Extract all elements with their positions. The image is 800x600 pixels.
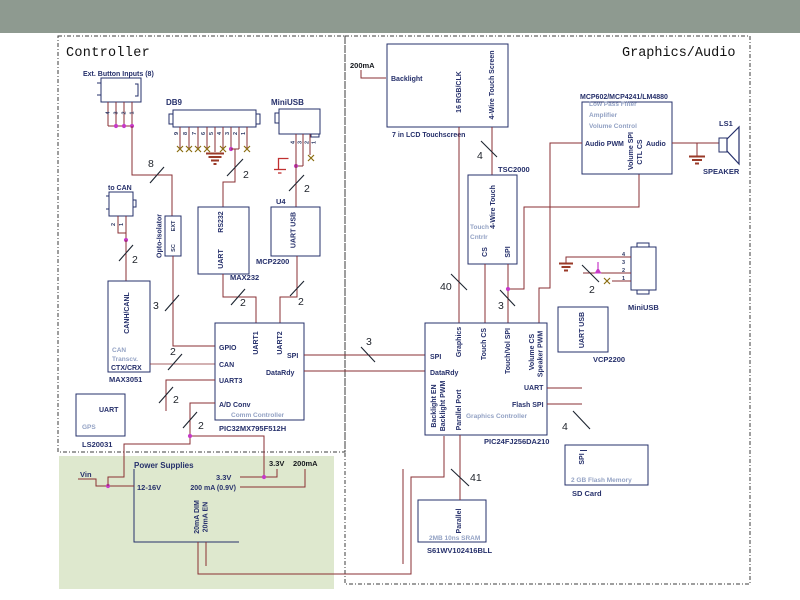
svg-text:LS1: LS1 — [719, 119, 733, 128]
IC U4 MCP2200 — [256, 197, 320, 266]
junction dot J4 — [124, 238, 128, 242]
header band — [0, 0, 800, 33]
wire: speaker PWM to amp — [539, 143, 582, 323]
svg-text:40: 40 — [440, 281, 452, 293]
svg-text:Vin: Vin — [80, 470, 92, 479]
svg-text:7 in LCD Touchscreen: 7 in LCD Touchscreen — [392, 132, 465, 139]
svg-text:Backlight: Backlight — [391, 76, 423, 83]
svg-text:Touch CS: Touch CS — [481, 328, 488, 360]
junction dot DB9 pin3 — [229, 147, 233, 151]
svg-text:Low Pass Filter: Low Pass Filter — [589, 101, 637, 108]
svg-text:SPI: SPI — [505, 246, 512, 257]
SD Card — [565, 445, 648, 498]
IC U9 VCP2200 USB-UART — [558, 307, 625, 364]
connector J2 DB9 — [166, 98, 260, 127]
svg-text:2: 2 — [198, 420, 204, 432]
bus marker 4 (touch) — [477, 141, 497, 162]
wire: J4 to MAX3051 — [125, 240, 127, 281]
LCD 7in touchscreen — [387, 44, 508, 139]
svg-text:Touch: Touch — [470, 224, 489, 231]
svg-text:MCP602/MCP4241/LM4880: MCP602/MCP4241/LM4880 — [580, 94, 668, 101]
pins 4,3,2,1 of J1 — [106, 102, 136, 126]
svg-text:2: 2 — [170, 346, 176, 358]
svg-text:Opto-Isolator: Opto-Isolator — [157, 214, 164, 258]
svg-text:2: 2 — [304, 183, 310, 195]
svg-text:3: 3 — [153, 300, 159, 312]
junction dot A/D net — [188, 434, 192, 438]
svg-text:3.3V: 3.3V — [269, 459, 284, 468]
svg-text:2: 2 — [243, 169, 249, 181]
VBUS power symbol — [274, 159, 289, 174]
svg-text:Cntrlr: Cntrlr — [470, 234, 488, 241]
svg-text:2MB 10ns SRAM: 2MB 10ns SRAM — [429, 535, 480, 542]
svg-text:2 GB Flash Memory: 2 GB Flash Memory — [571, 477, 632, 484]
svg-text:Backlight PWM: Backlight PWM — [440, 381, 447, 432]
wire: MCP2200 to UART2 — [280, 256, 297, 323]
svg-text:7: 7 — [192, 132, 198, 135]
svg-text:200 mA (0.9V): 200 mA (0.9V) — [190, 485, 236, 492]
svg-text:VCP2200: VCP2200 — [593, 355, 625, 364]
junction mark J5 — [595, 262, 602, 274]
no-connect X on J3 pin2 — [308, 155, 314, 161]
svg-text:1: 1 — [130, 111, 136, 114]
bus marker 40 — [440, 274, 467, 293]
junction dot J3 — [294, 164, 298, 168]
SRAM S61WV102416BLL — [418, 500, 492, 555]
bus marker 41 — [451, 469, 482, 486]
svg-text:2: 2 — [589, 284, 595, 296]
wire: J5 pin4 to ground — [566, 257, 631, 263]
section frame: Controller — [58, 36, 345, 452]
wire: DB9 TX/RX to MAX232 — [223, 149, 239, 207]
svg-text:8: 8 — [183, 132, 189, 135]
power supplies shaded region — [59, 456, 334, 589]
connector J5 MiniUSB (graphics) — [628, 243, 659, 312]
svg-text:Volume SPI: Volume SPI — [628, 132, 635, 170]
bus marker 2 (UART2) — [290, 281, 304, 308]
svg-text:DataRdy: DataRdy — [430, 370, 459, 377]
svg-text:LS20031: LS20031 — [82, 440, 112, 449]
pins 20mA DIM / 20mA EN — [194, 500, 210, 534]
bus marker 2 (USB pair) — [582, 265, 599, 296]
svg-text:UART1: UART1 — [253, 331, 260, 354]
IC MAX232 — [198, 207, 259, 282]
wire: button bus node — [108, 125, 132, 127]
svg-text:Amplifier: Amplifier — [589, 112, 618, 119]
section frame: Graphics/Audio — [345, 36, 750, 584]
svg-text:Touch/Vol SPI: Touch/Vol SPI — [505, 328, 512, 374]
speaker LS1 — [703, 119, 740, 176]
wire: 4-wire touch to TSC2000 — [491, 127, 493, 175]
svg-text:to CAN: to CAN — [108, 185, 132, 192]
svg-text:Parallel: Parallel — [456, 508, 463, 533]
net 200mA backlight supply — [240, 459, 318, 487]
pins 2,1 of J4 — [111, 216, 126, 240]
svg-text:UART2: UART2 — [277, 331, 284, 354]
svg-text:4: 4 — [477, 150, 483, 162]
svg-text:Graphics Controller: Graphics Controller — [466, 413, 528, 420]
svg-text:200mA: 200mA — [350, 61, 375, 70]
svg-text:SPI: SPI — [287, 353, 298, 360]
svg-text:UART USB: UART USB — [579, 312, 586, 348]
svg-text:UART: UART — [218, 249, 225, 269]
svg-text:6: 6 — [201, 132, 207, 135]
svg-text:Flash SPI: Flash SPI — [512, 402, 544, 409]
bus marker 8 — [148, 158, 164, 183]
wire: J3 pin3 jog — [296, 165, 303, 167]
no-connect X on J5 pin1 — [604, 278, 610, 284]
power supplies block — [134, 461, 239, 542]
wire: J5 pin1 stub — [612, 280, 631, 282]
svg-text:Audio: Audio — [646, 141, 666, 148]
svg-text:GPS: GPS — [82, 424, 96, 431]
svg-text:CTL CS: CTL CS — [637, 139, 644, 164]
svg-text:12-16V: 12-16V — [137, 483, 161, 492]
svg-text:4-Wire Touch Screen: 4-Wire Touch Screen — [489, 50, 496, 119]
svg-text:SC: SC — [171, 244, 177, 252]
svg-text:SPI: SPI — [579, 453, 586, 464]
svg-text:MiniUSB: MiniUSB — [271, 98, 304, 107]
svg-text:CS: CS — [482, 247, 489, 257]
svg-text:Comm Controller: Comm Controller — [231, 412, 285, 419]
wire: UART3 to GPS — [166, 380, 215, 411]
bus marker 2 (CAN) — [168, 346, 182, 370]
svg-text:UART: UART — [524, 385, 544, 392]
svg-text:Controller: Controller — [66, 46, 150, 61]
junction dot 3.3V — [262, 475, 266, 479]
svg-text:1: 1 — [312, 141, 318, 144]
IC TSC2000 touch controller — [468, 165, 530, 264]
svg-text:20mA DIM: 20mA DIM — [194, 500, 201, 534]
svg-text:3: 3 — [366, 336, 372, 348]
svg-text:4: 4 — [562, 421, 568, 433]
svg-text:A/D Conv: A/D Conv — [219, 402, 251, 409]
net 200mA backlight — [350, 61, 423, 83]
junction dot Vin — [106, 484, 110, 488]
wire: RGB bus LCD to graphics — [458, 127, 460, 323]
connector J1 Ext. Button Inputs (8) — [83, 71, 154, 102]
connector J3 MiniUSB (controller) — [271, 98, 320, 137]
wire: parallel port to SRAM — [459, 435, 461, 500]
ground on DB9 pin 5 — [206, 154, 224, 165]
junction dots on button node — [114, 124, 118, 128]
svg-text:DB9: DB9 — [166, 98, 183, 107]
bus marker 2 (UART1) — [231, 289, 246, 309]
bus marker 4 (flash SPI) — [562, 411, 590, 433]
svg-text:MAX232: MAX232 — [230, 273, 259, 282]
svg-text:Audio PWM: Audio PWM — [585, 141, 624, 148]
svg-text:Parallel Port: Parallel Port — [456, 389, 463, 431]
wire: buttons to opto-isolator — [132, 126, 172, 216]
svg-text:Power Supplies: Power Supplies — [134, 461, 194, 470]
svg-text:16 RGB/CLK: 16 RGB/CLK — [456, 71, 463, 113]
wire: opto to GPIO — [173, 256, 215, 346]
pin numbers 4,3,2,1 of J5 — [622, 252, 626, 282]
svg-text:2: 2 — [111, 223, 117, 226]
svg-text:SPEAKER: SPEAKER — [703, 167, 740, 176]
svg-text:TSC2000: TSC2000 — [498, 165, 530, 174]
connector J4 to CAN — [106, 185, 136, 216]
pins 9..1 of DB9 — [174, 127, 247, 152]
svg-text:3: 3 — [498, 300, 504, 312]
svg-text:20mA EN: 20mA EN — [203, 502, 210, 532]
svg-text:CTX/CRX: CTX/CRX — [111, 365, 142, 372]
MCU U1 Comm Controller PIC32MX795F512H — [215, 323, 304, 433]
wire: backlight EN to graphics controller — [206, 469, 403, 566]
wire: MAX232 to UART1 — [223, 274, 256, 323]
net 3.3V output — [240, 459, 284, 477]
svg-text:2: 2 — [233, 132, 239, 135]
svg-text:Volume CS: Volume CS — [529, 333, 536, 370]
svg-text:8: 8 — [148, 158, 154, 170]
svg-text:Transcv.: Transcv. — [112, 356, 138, 363]
ground on J5 pin4 — [559, 264, 573, 271]
svg-text:9: 9 — [174, 132, 180, 135]
wire: Flash SPI to SD card — [547, 403, 582, 405]
svg-text:SD Card: SD Card — [572, 489, 602, 498]
svg-text:1: 1 — [241, 132, 247, 135]
svg-text:3: 3 — [225, 132, 231, 135]
svg-text:MiniUSB: MiniUSB — [628, 303, 659, 312]
svg-text:3: 3 — [114, 111, 120, 114]
svg-text:CANH/CANL: CANH/CANL — [124, 291, 131, 333]
svg-text:CAN: CAN — [112, 347, 126, 354]
svg-text:UART USB: UART USB — [291, 212, 298, 248]
svg-text:Volume Control: Volume Control — [589, 123, 637, 130]
bus marker 2 (USB) — [289, 175, 310, 195]
bus marker 2 (RS232) — [227, 159, 249, 181]
bus marker 2 (A/D) — [183, 412, 204, 432]
svg-text:2: 2 — [240, 297, 246, 309]
wire: graphics UART stub — [547, 387, 582, 389]
wire: DataRdy link — [304, 370, 425, 372]
svg-text:200mA: 200mA — [293, 459, 318, 468]
bus marker 3 (touch/vol SPI) — [498, 290, 515, 312]
svg-text:2: 2 — [298, 296, 304, 308]
opto-isolator — [157, 214, 182, 258]
wire: touch CS — [484, 264, 486, 323]
bus marker 2 (UART3) — [159, 387, 179, 406]
wire: amp audio out — [672, 142, 719, 144]
GPS module LS20031 — [76, 394, 125, 449]
svg-text:SPI: SPI — [430, 354, 441, 361]
wire: J5 USB pair — [583, 272, 631, 274]
svg-text:EXT: EXT — [171, 220, 177, 231]
svg-text:PIC24FJ256DA210: PIC24FJ256DA210 — [484, 437, 549, 446]
svg-text:UART: UART — [99, 407, 119, 414]
svg-text:41: 41 — [470, 472, 482, 484]
svg-text:3.3V: 3.3V — [216, 473, 231, 482]
svg-text:2: 2 — [132, 254, 138, 266]
wire: J3 USB pair to MCP2200 — [295, 134, 297, 207]
IC MAX3051 CAN transceiver — [108, 281, 150, 384]
svg-text:2: 2 — [173, 394, 179, 406]
svg-text:4-Wire Touch: 4-Wire Touch — [490, 185, 497, 229]
svg-text:MCP2200: MCP2200 — [256, 257, 289, 266]
svg-text:GPIO: GPIO — [219, 345, 237, 352]
svg-text:2: 2 — [305, 141, 311, 144]
svg-text:U4: U4 — [276, 197, 286, 206]
bus marker 3 (GPIO) — [153, 295, 179, 312]
svg-text:CAN: CAN — [219, 362, 234, 369]
svg-text:Backlight EN: Backlight EN — [431, 384, 438, 427]
svg-text:S61WV102416BLL: S61WV102416BLL — [427, 546, 492, 555]
svg-text:1: 1 — [119, 223, 125, 226]
svg-text:5: 5 — [209, 132, 215, 135]
bus marker 3 (SPI) — [361, 336, 375, 362]
wire: MAX3051 to CAN pin — [150, 363, 215, 365]
node Vin — [78, 470, 134, 486]
pins 4,3,2,1 of J3 — [291, 134, 318, 166]
svg-text:MAX3051: MAX3051 — [109, 375, 142, 384]
svg-text:DataRdy: DataRdy — [266, 370, 295, 377]
svg-text:PIC32MX795F512H: PIC32MX795F512H — [219, 424, 286, 433]
svg-text:2: 2 — [122, 111, 128, 114]
wire: Vin sense net to A/D and 3.3V rail — [108, 436, 264, 486]
bus marker 2 (CANH/CANL) — [119, 245, 138, 266]
svg-text:3: 3 — [298, 141, 304, 144]
svg-text:3: 3 — [622, 260, 625, 266]
no-connect X marks on DB9 pins 9,8,7,6,4,1 — [177, 146, 250, 152]
ground on audio output — [689, 143, 705, 164]
svg-text:UART3: UART3 — [219, 378, 242, 385]
wire: backlight DIM to graphics controller — [198, 436, 444, 574]
junction dot touch SPI — [506, 287, 510, 291]
svg-text:Ext. Button Inputs (8): Ext. Button Inputs (8) — [83, 71, 154, 78]
wire: A/D Conv sense — [190, 403, 215, 436]
IC U7 audio amp MCP602/MCP4241/LM4880 — [580, 94, 672, 174]
svg-text:Speaker PWM: Speaker PWM — [538, 331, 545, 377]
svg-text:Graphics/Audio: Graphics/Audio — [622, 46, 735, 61]
svg-text:RS232: RS232 — [218, 211, 225, 233]
wire: touch/vol SPI net — [508, 174, 639, 323]
wire: SPI link between controllers — [304, 354, 425, 356]
svg-text:Graphics: Graphics — [456, 327, 463, 357]
MCU U8 Graphics Controller PIC24FJ256DA210 — [425, 323, 549, 446]
